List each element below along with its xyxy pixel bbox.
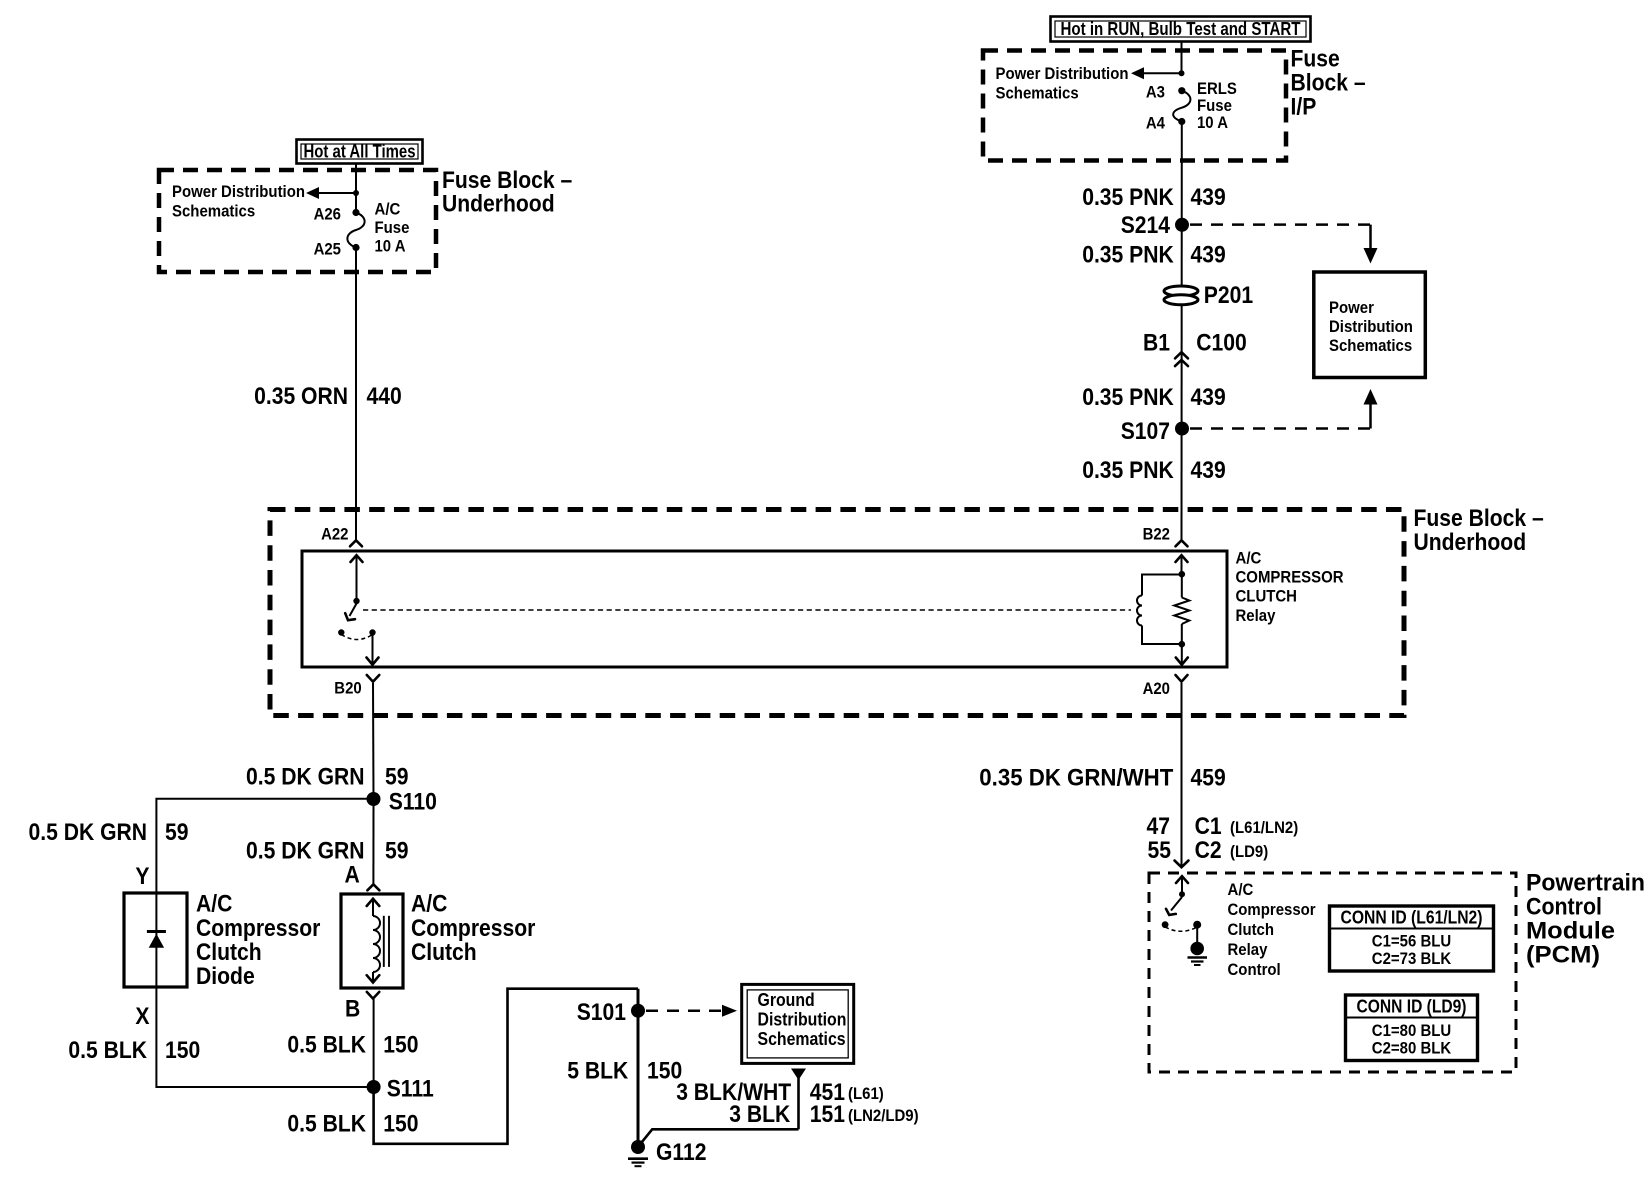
svg-text:P201: P201 <box>1204 282 1253 309</box>
svg-text:0.35 PNK: 0.35 PNK <box>1082 384 1174 411</box>
relay internal dashed control line <box>363 609 1131 611</box>
svg-text:B20: B20 <box>334 679 361 698</box>
svg-text:Fuse: Fuse <box>1291 46 1340 73</box>
svg-text:0.35 PNK: 0.35 PNK <box>1082 457 1174 484</box>
svg-text:Clutch: Clutch <box>196 939 262 966</box>
svg-text:Relay: Relay <box>1228 940 1268 959</box>
svg-text:10 A: 10 A <box>1197 113 1228 132</box>
svg-text:C1=56 BLU: C1=56 BLU <box>1372 932 1451 951</box>
wire label 0.35 PNK 439 (row 4) <box>1082 457 1225 484</box>
svg-text:0.5 BLK: 0.5 BLK <box>68 1037 147 1064</box>
svg-text:Hot in RUN, Bulb Test and STAR: Hot in RUN, Bulb Test and START <box>1061 19 1301 39</box>
svg-text:Power: Power <box>1329 298 1374 317</box>
fuse F1: A/C Fuse 10 A <box>347 200 409 256</box>
svg-text:A/C: A/C <box>1228 880 1254 899</box>
svg-text:Y: Y <box>135 863 149 890</box>
svg-text:C100: C100 <box>1196 330 1247 357</box>
clutch coil symbol <box>367 899 389 983</box>
wire: ERLS fuse output down to relay B22, circuit 439 <box>1181 122 1183 541</box>
svg-text:Underhood: Underhood <box>1414 529 1527 556</box>
svg-text:Control: Control <box>1228 960 1281 979</box>
label box: Hot at All Times <box>297 140 423 164</box>
svg-text:B22: B22 <box>1143 525 1170 544</box>
svg-text:440: 440 <box>367 383 402 410</box>
pin A20 of fuse block <box>1143 675 1188 698</box>
svg-text:CONN ID (LD9): CONN ID (LD9) <box>1357 997 1467 1017</box>
svg-text:Power Distribution: Power Distribution <box>996 64 1129 83</box>
svg-text:Ground: Ground <box>758 990 815 1010</box>
splice S110 <box>367 789 437 816</box>
svg-text:150: 150 <box>383 1032 418 1059</box>
svg-text:Clutch: Clutch <box>411 939 477 966</box>
component label: Fuse Block - I/P <box>1291 46 1366 121</box>
svg-text:A/C: A/C <box>375 200 401 219</box>
relay contact dots and dashed throw <box>338 629 376 639</box>
svg-text:10 A: 10 A <box>375 237 406 256</box>
ground G112 <box>628 1139 707 1166</box>
svg-text:0.5 DK GRN: 0.5 DK GRN <box>29 819 148 846</box>
svg-text:Underhood: Underhood <box>442 191 555 218</box>
svg-text:59: 59 <box>165 819 189 846</box>
svg-text:Hot at All Times: Hot at All Times <box>304 142 416 162</box>
fuse block I/P dashed box <box>983 51 1286 161</box>
svg-text:S107: S107 <box>1121 418 1170 445</box>
svg-text:Schematics: Schematics <box>996 84 1079 103</box>
svg-text:Fuse Block –: Fuse Block – <box>1414 505 1544 532</box>
svg-text:439: 439 <box>1191 242 1226 269</box>
svg-text:Compressor: Compressor <box>196 915 320 942</box>
arrow to Power Distribution Schematics (I/P) <box>1131 67 1182 79</box>
wire junction to pin A26 <box>355 193 357 213</box>
svg-text:S111: S111 <box>387 1076 434 1103</box>
diode label <box>196 891 320 991</box>
svg-text:Schematics: Schematics <box>1329 336 1412 355</box>
wire label 0.35 PNK 439 (row 3) <box>1082 384 1225 411</box>
relay coil output wire to A20 <box>1176 644 1188 665</box>
CONN ID (LD9) table <box>1346 995 1478 1061</box>
svg-text:0.35 DK GRN/WHT: 0.35 DK GRN/WHT <box>979 765 1173 792</box>
relay common contact wire from A22 <box>351 555 363 604</box>
svg-text:A/C: A/C <box>196 891 232 918</box>
svg-text:0.5 DK GRN: 0.5 DK GRN <box>246 838 365 865</box>
svg-text:C2=80 BLK: C2=80 BLK <box>1372 1039 1452 1058</box>
svg-text:Block –: Block – <box>1291 70 1366 97</box>
reference text: Power Distribution Schematics (I/P) <box>996 64 1129 103</box>
svg-text:G112: G112 <box>656 1139 707 1166</box>
wire from A20 down to PCM, circuit 459 <box>979 683 1225 867</box>
svg-text:Power Distribution: Power Distribution <box>172 182 305 201</box>
label box: Hot in RUN, Bulb Test and START <box>1051 17 1311 42</box>
wire from Hot at All Times box to fuse block <box>355 164 357 193</box>
dashed reference wire from S214 to Power Distribution Schematics <box>1190 225 1378 264</box>
svg-text:151: 151 <box>810 1101 845 1128</box>
arrow to Power Distribution Schematics <box>306 187 356 199</box>
svg-text:COMPRESSOR: COMPRESSOR <box>1236 568 1344 587</box>
fuse block underhood dashed box (relay area) <box>270 510 1404 716</box>
relay output wire to B20 <box>367 633 379 665</box>
CONN ID (L61/LN2) table <box>1330 906 1494 971</box>
svg-text:439: 439 <box>1191 184 1226 211</box>
wire from diode X to S111, circuit 150 <box>68 987 373 1087</box>
svg-text:Distribution: Distribution <box>1329 317 1413 336</box>
svg-text:A25: A25 <box>314 240 341 259</box>
svg-text:(L61/LN2): (L61/LN2) <box>1230 818 1298 837</box>
svg-text:S110: S110 <box>389 789 437 816</box>
reference box: Power Distribution Schematics <box>1314 272 1426 378</box>
wire from clutch B to S111, circuit 150 <box>287 999 418 1087</box>
svg-text:Clutch: Clutch <box>1228 920 1275 939</box>
svg-text:C2=73 BLK: C2=73 BLK <box>1372 949 1452 968</box>
wire branch from S110 to diode, circuit 59 <box>29 799 374 893</box>
pin A25 <box>314 240 360 259</box>
svg-text:3 BLK: 3 BLK <box>729 1101 791 1128</box>
ground trunk wire down to G112, circuit 150 <box>567 989 682 1147</box>
svg-text:Compressor: Compressor <box>1228 900 1316 919</box>
pin A22 of fuse block <box>321 525 362 547</box>
A/C compressor clutch box <box>341 894 403 988</box>
svg-text:55: 55 <box>1148 837 1172 864</box>
svg-text:CONN ID (L61/LN2): CONN ID (L61/LN2) <box>1341 908 1483 928</box>
svg-text:A26: A26 <box>314 205 341 224</box>
wire from B20 down to S110, circuit 59 <box>246 683 409 799</box>
svg-text:0.5 DK GRN: 0.5 DK GRN <box>246 764 365 791</box>
svg-text:150: 150 <box>383 1111 418 1138</box>
svg-text:Fuse: Fuse <box>375 218 410 237</box>
svg-text:Relay: Relay <box>1236 606 1276 625</box>
wire: fuse output down to relay A22, circuit 440 <box>254 248 402 541</box>
relay coil resistor branch <box>1174 574 1189 647</box>
svg-text:0.5 BLK: 0.5 BLK <box>287 1111 366 1138</box>
arrow wire from Ground Distribution Schematics down <box>791 1069 806 1130</box>
junction node at ERLS fuse top <box>1179 70 1185 76</box>
PCM switch contacts and dashed throw <box>1162 921 1202 932</box>
svg-text:Distribution: Distribution <box>758 1010 847 1030</box>
PCM pin 47 connector C1 <box>1147 813 1299 840</box>
PCM pin chevron <box>1175 861 1189 868</box>
svg-text:C1: C1 <box>1195 813 1222 840</box>
clutch label <box>411 891 535 967</box>
PCM driver input arrow <box>1176 876 1188 897</box>
diode symbol <box>147 932 166 948</box>
svg-text:Control: Control <box>1526 894 1602 921</box>
pin A of clutch <box>345 862 380 891</box>
svg-text:439: 439 <box>1191 457 1226 484</box>
svg-text:0.5 BLK: 0.5 BLK <box>287 1032 366 1059</box>
svg-text:Powertrain: Powertrain <box>1526 870 1645 897</box>
PCM driver switch arm <box>1166 897 1182 915</box>
svg-text:Schematics: Schematics <box>172 202 255 221</box>
svg-text:B: B <box>345 996 360 1023</box>
svg-text:C2: C2 <box>1195 837 1222 864</box>
svg-text:A3: A3 <box>1146 83 1165 102</box>
component label: Powertrain Control Module (PCM) <box>1526 870 1645 969</box>
svg-text:A/C: A/C <box>411 891 447 918</box>
pin A4 <box>1146 114 1186 133</box>
relay switch arm <box>345 604 356 621</box>
svg-text:Compressor: Compressor <box>411 915 535 942</box>
svg-text:A20: A20 <box>1143 679 1170 698</box>
junction node at fuse top <box>353 190 359 196</box>
component label: Fuse Block - Underhood (relay area) <box>1414 505 1544 556</box>
svg-text:439: 439 <box>1191 384 1226 411</box>
relay label <box>1236 549 1344 626</box>
svg-text:Schematics: Schematics <box>758 1029 846 1049</box>
svg-text:(LN2/LD9): (LN2/LD9) <box>848 1106 919 1125</box>
svg-text:A/C: A/C <box>1236 549 1262 568</box>
svg-text:Diode: Diode <box>196 963 255 990</box>
svg-text:(L61): (L61) <box>848 1084 884 1103</box>
connector C100 pin B1 <box>1143 330 1247 367</box>
splice S214 <box>1121 212 1189 239</box>
pin A26 <box>314 205 360 224</box>
splice S107 <box>1121 418 1189 445</box>
svg-text:0.35 ORN: 0.35 ORN <box>254 383 348 410</box>
wire from S110 down to clutch pin A, circuit 59 <box>246 799 409 884</box>
A/C compressor clutch relay box <box>302 551 1227 667</box>
svg-text:CLUTCH: CLUTCH <box>1236 587 1298 606</box>
wire label 0.35 PNK 439 (row 1) <box>1082 184 1225 211</box>
wire from S111 to ground trunk, circuit 150 <box>287 989 638 1144</box>
wire labels 3 BLK/WHT 451 and 3 BLK 151 <box>676 1079 918 1128</box>
relay coil input arrow <box>1176 555 1188 577</box>
svg-text:S214: S214 <box>1121 212 1171 239</box>
grommet P201 <box>1164 282 1253 309</box>
reference box: Ground Distribution Schematics <box>742 984 854 1063</box>
wire label 0.35 PNK 439 (row 2) <box>1082 242 1225 269</box>
pin A3 <box>1146 83 1186 102</box>
svg-text:S101: S101 <box>577 999 626 1026</box>
fuse F2: ERLS Fuse 10 A <box>1173 79 1237 132</box>
component label: Fuse Block - Underhood <box>442 167 572 218</box>
svg-text:C1=80 BLU: C1=80 BLU <box>1372 1021 1451 1040</box>
reference text: Power Distribution Schematics <box>172 182 305 221</box>
svg-text:0.35 PNK: 0.35 PNK <box>1082 242 1174 269</box>
A/C compressor clutch diode box <box>124 893 187 987</box>
svg-text:459: 459 <box>1191 765 1226 792</box>
svg-text:(LD9): (LD9) <box>1230 842 1268 861</box>
PCM pin 55 connector C2 <box>1148 837 1269 864</box>
svg-text:I/P: I/P <box>1291 94 1317 121</box>
svg-text:A22: A22 <box>321 525 348 544</box>
svg-text:150: 150 <box>165 1037 200 1064</box>
fuse block underhood dashed box <box>159 170 436 272</box>
svg-text:A4: A4 <box>1146 114 1166 133</box>
dashed reference wire from S107 to Power Distribution Schematics <box>1190 389 1378 429</box>
svg-text:59: 59 <box>385 838 409 865</box>
svg-text:47: 47 <box>1147 813 1171 840</box>
powertrain control module dashed box <box>1149 873 1516 1072</box>
svg-text:5 BLK: 5 BLK <box>567 1058 629 1085</box>
svg-text:B1: B1 <box>1143 330 1170 357</box>
svg-text:59: 59 <box>385 764 409 791</box>
pin B22 of fuse block <box>1143 525 1188 547</box>
dashed reference wire from S101 to Ground Distribution Schematics <box>646 1005 737 1017</box>
svg-text:0.35 PNK: 0.35 PNK <box>1082 184 1174 211</box>
svg-text:A: A <box>345 862 360 889</box>
pin B20 of fuse block <box>334 675 379 698</box>
wire from label box into I/P fuse block <box>1181 42 1183 74</box>
splice S111 <box>367 1076 434 1103</box>
PCM driver label: A/C Compressor Clutch Relay Control <box>1228 880 1316 979</box>
splice S101 <box>577 999 645 1026</box>
svg-text:X: X <box>135 1003 149 1030</box>
relay coil inductor branch <box>1137 575 1182 645</box>
wire from ground schematics arrow to G112 <box>640 1129 799 1145</box>
svg-text:Module: Module <box>1526 918 1615 945</box>
svg-text:(PCM): (PCM) <box>1526 942 1600 969</box>
pin B of clutch <box>345 992 379 1023</box>
PCM internal ground <box>1188 928 1208 965</box>
